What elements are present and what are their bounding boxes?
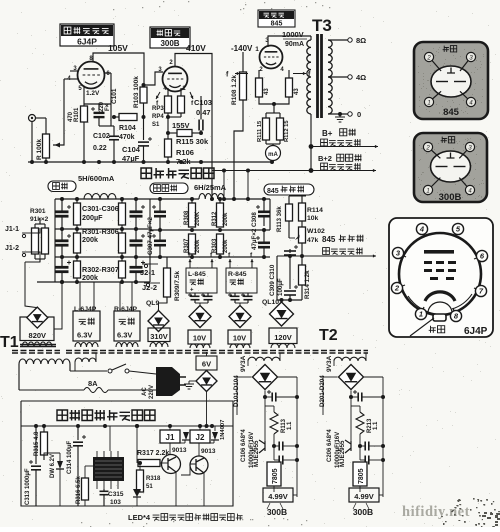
capacitor filter R a <box>364 442 366 451</box>
resistor R103 100k <box>140 87 147 103</box>
svg-text:7805: 7805 <box>358 468 365 484</box>
svg-text:L-6J4P: L-6J4P <box>74 306 97 313</box>
wire dc bus L <box>237 376 252 378</box>
svg-text:D201-D204: D201-D204 <box>319 375 326 407</box>
svg-text:8A: 8A <box>88 379 98 388</box>
filament f arrows R-845 <box>229 259 231 268</box>
svg-text:6H/25mA: 6H/25mA <box>194 183 227 192</box>
svg-text:845: 845 <box>443 107 460 118</box>
node 820V rail <box>60 280 64 284</box>
6J4P heater arc <box>425 292 455 301</box>
choke 5H/600mA <box>84 194 116 199</box>
svg-text:0.47: 0.47 <box>196 108 211 117</box>
resistor RP3 cathode <box>165 96 172 113</box>
6J4P key notch <box>433 314 446 321</box>
svg-text:6J4P: 6J4P <box>77 37 97 47</box>
socket panel 300B <box>414 133 487 202</box>
svg-text:4.99V: 4.99V <box>354 492 374 501</box>
diode D J1 <box>183 432 189 440</box>
wire cathode resistors <box>266 112 280 114</box>
wire cathode junction <box>167 113 169 139</box>
svg-text:200k: 200k <box>223 212 229 226</box>
rectifier QL10 120V <box>270 302 294 326</box>
svg-text:10V: 10V <box>233 334 246 343</box>
wire J1 to divider <box>32 228 40 233</box>
svg-text:47k: 47k <box>307 237 319 244</box>
svg-text:D101-D104: D101-D104 <box>233 375 240 407</box>
title HV delay supply circuit <box>57 410 68 421</box>
caps C308 column <box>263 200 265 211</box>
wire W102 to bias bus <box>301 243 303 265</box>
resistor 43 left <box>256 78 263 97</box>
resistor R104 470k <box>119 114 137 121</box>
T1 winding below 820V <box>22 342 52 347</box>
svg-text:6.3V: 6.3V <box>77 331 92 340</box>
svg-text:1: 1 <box>419 310 423 319</box>
resistor R318 51 <box>137 470 144 492</box>
transformer T3 secondary winding <box>328 40 332 114</box>
resistor R112 15 <box>277 118 284 140</box>
timer IC <box>93 457 124 481</box>
filter resistors column D <box>121 199 123 203</box>
wire 300B pins <box>167 88 169 96</box>
svg-text:R314 1.2k: R314 1.2k <box>304 270 311 299</box>
svg-text:R309/7.5k: R309/7.5k <box>174 271 181 301</box>
svg-text:300B: 300B <box>160 39 179 48</box>
wire relay bus <box>169 426 171 430</box>
rectifier bridge 6V <box>196 371 217 392</box>
svg-text:300B: 300B <box>353 507 373 517</box>
svg-text:R301: R301 <box>30 208 46 215</box>
svg-text:R307: R307 <box>184 238 190 253</box>
resistor R114 10k <box>299 203 306 221</box>
svg-text:QL9: QL9 <box>146 300 159 307</box>
svg-text:300B: 300B <box>439 192 462 203</box>
resistor R314 1.2k <box>299 265 306 285</box>
svg-text:4Ω: 4Ω <box>356 73 366 82</box>
svg-text:1.1: 1.1 <box>373 421 379 430</box>
transistor Q1 9013 <box>162 455 181 474</box>
diode D J2 <box>212 432 218 440</box>
wire coupling to 300B grid <box>144 72 164 85</box>
stage label box: voltage amp 6J4P <box>60 24 114 46</box>
svg-text:6J4P: 6J4P <box>464 326 488 337</box>
svg-text:hifidiy.net: hifidiy.net <box>402 504 470 520</box>
svg-text:T1: T1 <box>0 334 19 351</box>
svg-text:R-845: R-845 <box>228 271 247 278</box>
svg-text:845: 845 <box>267 188 279 195</box>
svg-text:90mA: 90mA <box>285 41 304 48</box>
T2 primary winding <box>75 358 96 362</box>
ground 6V <box>189 380 196 382</box>
svg-text:S1: S1 <box>152 122 160 128</box>
svg-text:43: 43 <box>264 88 270 95</box>
svg-text:8Ω: 8Ω <box>356 36 366 45</box>
svg-text:T3: T3 <box>312 16 332 35</box>
svg-text:845: 845 <box>271 21 283 28</box>
svg-text:6V: 6V <box>202 360 211 369</box>
capacitor C102 0.22 <box>110 104 112 126</box>
svg-text:J1-1: J1-1 <box>5 226 19 233</box>
delay section border <box>21 401 233 506</box>
svg-text:C106 6A8*4: C106 6A8*4 <box>241 429 247 462</box>
capacitor C101 220uF <box>98 104 100 110</box>
delay top bus <box>21 425 233 427</box>
resistor R309 7.5k <box>164 268 171 297</box>
filament arrow f left <box>235 73 248 75</box>
wire bias rails <box>289 195 306 197</box>
svg-text:C104: C104 <box>122 145 141 154</box>
wire 845 plate to T3 <box>268 36 311 47</box>
resistor R113 36k <box>286 204 293 221</box>
svg-text:MJE2955: MJE2955 <box>253 440 260 467</box>
svg-text:47µF×2 C308: 47µF×2 C308 <box>251 212 258 250</box>
tube V1 6J4P <box>78 62 105 89</box>
svg-text:RP4: RP4 <box>152 114 164 120</box>
svg-text:820V: 820V <box>29 331 47 340</box>
caps below L-845 <box>191 295 200 297</box>
svg-text:LED*4: LED*4 <box>128 513 151 522</box>
svg-text:4.99V: 4.99V <box>268 492 288 501</box>
svg-text:R 100k: R 100k <box>36 139 43 160</box>
regulator 7805 L <box>267 462 281 486</box>
svg-text:L-845: L-845 <box>188 271 206 278</box>
svg-text:W102: W102 <box>307 228 325 235</box>
svg-text:R112 15: R112 15 <box>284 120 290 142</box>
socket panel 845 <box>414 42 488 119</box>
svg-text:1.2V: 1.2V <box>86 90 100 97</box>
box L-6J4P filament 6.3V <box>79 282 81 311</box>
wire bias to QL10 <box>277 299 302 301</box>
capacitor filter R b <box>364 456 366 465</box>
svg-text:R104: R104 <box>119 125 136 132</box>
svg-text:R-6J4P: R-6J4P <box>114 306 138 313</box>
choke 6H/25mA <box>199 194 224 199</box>
svg-text:MJE2955: MJE2955 <box>339 440 346 467</box>
svg-text:C309 C310: C309 C310 <box>269 264 276 296</box>
svg-text:R317 2.2k: R317 2.2k <box>137 450 169 457</box>
svg-text:155V: 155V <box>172 121 190 130</box>
wire input to pot <box>31 122 33 163</box>
svg-text:200k: 200k <box>82 273 98 282</box>
caps C307 column <box>159 198 161 211</box>
svg-text:200k: 200k <box>223 239 229 253</box>
svg-text:310V: 310V <box>150 332 168 341</box>
svg-text:R103 100k: R103 100k <box>133 76 140 108</box>
svg-text:R315 4.8: R315 4.8 <box>34 431 40 456</box>
transformer core line T1 <box>20 344 56 346</box>
bridge rectifier D201-D204 <box>339 365 364 390</box>
resistor R312 200k <box>217 203 224 227</box>
svg-text:R111 15: R111 15 <box>257 120 263 142</box>
resistor R101 470 cathode <box>81 106 88 122</box>
svg-text:4: 4 <box>419 225 425 234</box>
filament arrow f right <box>293 73 306 75</box>
svg-text:B+2: B+2 <box>318 154 332 163</box>
box L-845 filament <box>186 268 217 293</box>
svg-text:J2: J2 <box>196 433 205 442</box>
svg-text:C101: C101 <box>111 88 118 104</box>
resistor R213 1.1 <box>356 412 364 434</box>
box R-845 filament <box>226 268 257 293</box>
label 845 grid bias oval <box>264 184 314 195</box>
LED <box>133 489 141 497</box>
svg-text:1N4007: 1N4007 <box>220 420 226 440</box>
svg-text:2: 2 <box>394 284 400 293</box>
svg-text:6.3V: 6.3V <box>117 331 132 340</box>
T3 tap 8 ohm <box>328 39 348 41</box>
svg-text:C103: C103 <box>194 98 212 107</box>
stage label box: driver 300B <box>150 27 190 48</box>
svg-text:C307 47µF×2: C307 47µF×2 <box>147 217 154 255</box>
input jack J <box>29 115 36 122</box>
svg-text:1: 1 <box>255 46 259 53</box>
filter caps column E <box>135 199 137 211</box>
svg-text:845: 845 <box>322 235 336 244</box>
resistor R307 200k row2 <box>189 234 196 254</box>
relay J2 <box>190 430 210 443</box>
resistor R303 200k row2 <box>217 234 224 254</box>
tube V2 300B driver <box>163 67 188 92</box>
rectifier 10V left <box>189 306 211 328</box>
svg-text:7805: 7805 <box>272 468 279 484</box>
HV rails <box>55 198 150 200</box>
stage label box: output 845 <box>258 10 295 27</box>
svg-text:C315: C315 <box>108 491 124 498</box>
ground T3 <box>339 114 341 117</box>
svg-text:C206 6A8*4: C206 6A8*4 <box>327 429 333 462</box>
caps below R-845 <box>231 295 240 297</box>
svg-text:R101: R101 <box>74 107 80 122</box>
6J4P key pointer <box>410 318 434 336</box>
svg-text:5H/600mA: 5H/600mA <box>78 174 115 183</box>
svg-text:QL10: QL10 <box>262 299 279 306</box>
svg-text:J1: J1 <box>166 433 175 442</box>
svg-text:9V3A: 9V3A <box>240 355 247 372</box>
label HV oval <box>48 181 76 192</box>
svg-text:RP3: RP3 <box>152 106 164 112</box>
svg-text:DW 6.2V: DW 6.2V <box>50 454 56 478</box>
transformer T3 core <box>316 34 319 118</box>
svg-text:R108 1.2k: R108 1.2k <box>231 75 238 105</box>
output box 4.99V R <box>349 488 379 502</box>
potentiometer W102 47k <box>301 221 303 227</box>
svg-text:J2-1: J2-1 <box>140 268 155 277</box>
corner noise <box>441 498 500 528</box>
resistor R113 1.1 <box>270 412 278 434</box>
bridge rectifier D101-D104 <box>253 365 278 390</box>
svg-text:AC: AC <box>142 387 148 396</box>
svg-text:120V: 120V <box>274 333 292 342</box>
svg-text:R303: R303 <box>212 238 218 253</box>
resistor R316 6.5k <box>82 478 89 500</box>
rectifier 820V box <box>25 262 37 308</box>
wire B+2 feed down to secondary filter <box>211 163 213 199</box>
svg-text:9013: 9013 <box>201 448 216 455</box>
svg-text:105V: 105V <box>108 43 128 53</box>
svg-text:43: 43 <box>294 88 300 95</box>
relay J1 <box>160 430 180 443</box>
T1 primary winding <box>19 359 70 364</box>
ground bus <box>28 161 272 163</box>
resistor R111 15 <box>263 118 270 140</box>
svg-text:200k: 200k <box>195 239 201 253</box>
svg-text:91k×2: 91k×2 <box>30 216 49 223</box>
potentiometer R 100k volume <box>43 134 50 158</box>
svg-text:R106: R106 <box>176 148 194 157</box>
svg-text:R316 6.5k: R316 6.5k <box>76 476 82 504</box>
svg-text:9013: 9013 <box>172 447 187 454</box>
svg-text:10k: 10k <box>307 215 319 222</box>
meter mA <box>266 146 281 161</box>
svg-text:T2: T2 <box>319 327 338 344</box>
svg-text:R114: R114 <box>307 207 323 214</box>
svg-text:C102: C102 <box>93 133 110 140</box>
title power supply circuit <box>141 168 152 179</box>
resistor R308 200K <box>189 203 196 227</box>
box 6V <box>196 356 217 370</box>
svg-text:2: 2 <box>425 145 430 151</box>
svg-text:R318: R318 <box>146 476 161 482</box>
T3 tap 4 ohm <box>328 76 348 78</box>
wire tube V1 pins <box>70 70 78 72</box>
svg-text:R312: R312 <box>212 211 218 226</box>
svg-text:C313 1000µF: C313 1000µF <box>25 468 31 505</box>
svg-text:mA: mA <box>268 152 278 158</box>
wire R103 to node <box>143 103 145 140</box>
tube V3 845 <box>260 46 283 69</box>
wire mains top <box>70 370 107 372</box>
svg-text:1.1: 1.1 <box>287 421 293 430</box>
wire 410V rail <box>175 54 212 164</box>
svg-text:1000V: 1000V <box>282 30 304 39</box>
svg-text:470k: 470k <box>119 134 135 141</box>
T3 tap 0 <box>328 113 348 115</box>
regulator 7805 R <box>353 462 367 486</box>
resistor R108 1.2k <box>240 72 247 100</box>
resistor R106 7.2k <box>165 139 172 157</box>
output box 4.99V L <box>263 488 293 502</box>
capacitor C104 47uF <box>138 141 149 143</box>
resistor R315 4.8 <box>41 432 48 455</box>
svg-text:C314 100µF: C314 100µF <box>67 441 73 474</box>
wire grid to pot wiper <box>53 79 64 145</box>
resistor R115 30k <box>177 130 192 137</box>
wire 105V rail <box>93 53 144 87</box>
svg-text:+: + <box>190 288 194 294</box>
wire dc bus R <box>323 376 338 378</box>
secondary rails <box>150 198 199 200</box>
svg-text:R308: R308 <box>184 210 190 225</box>
svg-text:0.22: 0.22 <box>93 145 107 152</box>
svg-text:J1-2: J1-2 <box>5 245 19 252</box>
socket panel 6J4P <box>389 218 493 337</box>
wire 845 cathode join <box>258 70 260 78</box>
wire B+ down <box>310 120 312 147</box>
svg-text:1: 1 <box>427 100 430 106</box>
svg-text:51: 51 <box>146 484 153 490</box>
svg-text:200k: 200k <box>82 235 98 244</box>
resistor RP4 cathode <box>178 96 185 113</box>
svg-text:470: 470 <box>68 111 74 122</box>
svg-text:0: 0 <box>357 110 361 119</box>
svg-text:103: 103 <box>110 499 121 506</box>
svg-text:410V: 410V <box>186 43 206 53</box>
filament f arrows L-845 <box>189 259 191 268</box>
svg-text:C301-C306: C301-C306 <box>82 204 119 213</box>
capacitor filter L a <box>278 442 280 451</box>
svg-text:R115 30k: R115 30k <box>176 137 209 146</box>
6J4P pin circles <box>422 229 425 237</box>
transistor Q2 9013 <box>190 456 208 474</box>
6J4P grid bars <box>424 250 454 254</box>
wire -140V rail <box>242 52 244 72</box>
svg-text:100µF: 100µF <box>277 278 284 296</box>
wire plate to C101 node <box>104 72 111 74</box>
svg-text:-140V: -140V <box>231 44 253 53</box>
svg-text:R113 36k: R113 36k <box>277 206 283 232</box>
svg-text:2: 2 <box>426 55 431 61</box>
svg-text:200K: 200K <box>195 211 201 226</box>
filter caps column A <box>61 199 63 211</box>
label secondary HV oval <box>150 183 188 194</box>
svg-text:220V: 220V <box>149 385 155 399</box>
svg-text:300B: 300B <box>267 507 287 517</box>
svg-text:B+: B+ <box>322 129 333 138</box>
filter resistors column B <box>76 199 78 203</box>
filament arrows f <box>156 92 160 99</box>
svg-text:7.2k: 7.2k <box>176 157 191 166</box>
svg-text:10V: 10V <box>193 334 206 343</box>
capacitor filter L b <box>278 456 280 465</box>
transformer T3 primary winding <box>307 40 311 114</box>
power switch <box>108 369 112 373</box>
svg-text:1: 1 <box>426 188 429 194</box>
rectifier 10V right <box>229 306 251 328</box>
svg-text:200µF: 200µF <box>82 213 103 222</box>
transformer core line T2 <box>66 350 368 352</box>
svg-text:3: 3 <box>265 37 269 44</box>
resistor 43 right <box>286 78 293 97</box>
svg-text:9V3A: 9V3A <box>326 355 333 372</box>
